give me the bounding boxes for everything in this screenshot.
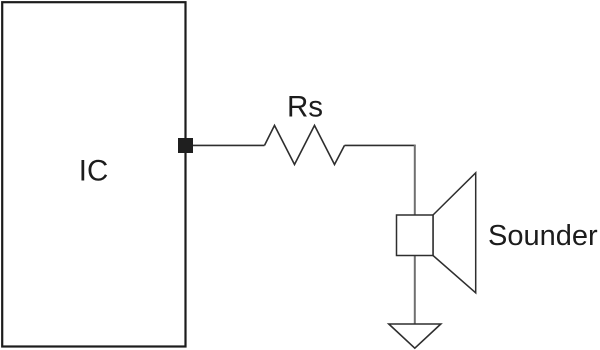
svg-text:Rs: Rs — [287, 90, 323, 123]
wire sounder to ground — [414, 256, 416, 325]
wire corner to sounder — [414, 145, 416, 215]
wire pin to Rs — [193, 144, 265, 146]
wire Rs to corner — [345, 144, 416, 146]
pin — [178, 138, 193, 153]
svg-text:IC: IC — [79, 155, 109, 188]
resistor Rs — [265, 125, 345, 164]
ground — [389, 324, 441, 348]
IC U1 — [2, 2, 185, 346]
svg-text:Sounder: Sounder — [488, 220, 598, 252]
sounder LS1 — [397, 173, 476, 293]
